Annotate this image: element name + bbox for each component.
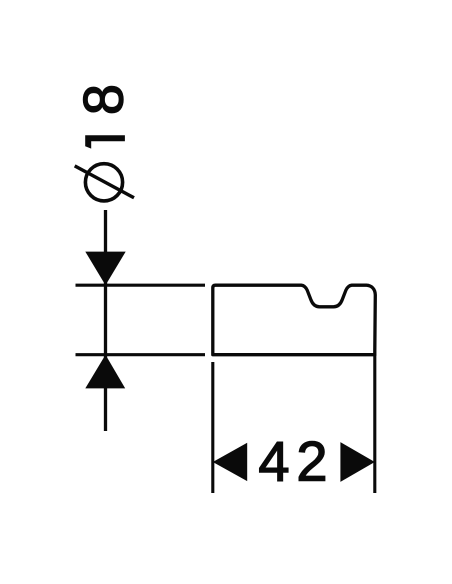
dimension label Ø18 : digit 1 (rotated, drawn as path): [85, 135, 125, 148]
extension line right (42 dimension): [373, 355, 376, 493]
arrowhead left (pointing left): [213, 443, 247, 481]
arrowhead right (pointing right): [340, 442, 374, 482]
extension line left (42 dimension): [211, 362, 214, 493]
vertical dimension line for Ø18: [104, 210, 107, 431]
dimension label Ø18 : diameter symbol slash: [75, 166, 134, 198]
extension line top (diameter): [76, 284, 206, 287]
arrowhead top (pointing down): [85, 252, 125, 286]
dimension label Ø18 : diameter symbol circle: [85, 164, 122, 201]
extension line bottom (diameter): [76, 353, 206, 356]
svg-text:4: 4: [258, 429, 289, 492]
svg-text:8: 8: [72, 84, 135, 115]
part outline: hook side profile with notch: [213, 285, 375, 355]
svg-text:2: 2: [296, 429, 327, 492]
arrowhead bottom (pointing up): [85, 355, 125, 389]
